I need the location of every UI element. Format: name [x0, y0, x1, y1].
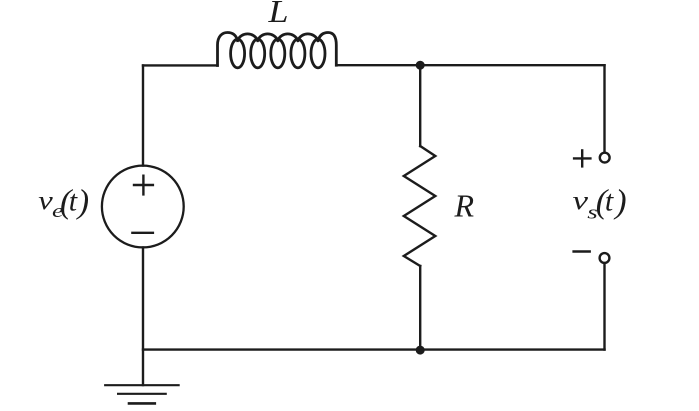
svg-text:): ): [76, 184, 89, 221]
wire middle vertical upper: [419, 65, 421, 146]
minus sign at output: [574, 250, 590, 252]
wire bottom horizontal: [143, 348, 605, 350]
label v_s(t): [573, 184, 627, 224]
wire top-left horizontal: [143, 64, 218, 66]
wire top-right horizontal: [336, 64, 604, 66]
terminal circle plus: [600, 153, 610, 163]
svg-text:t: t: [605, 185, 614, 218]
plus sign at output: [574, 150, 590, 166]
node junction dot top: [416, 61, 425, 70]
inductor L: [218, 33, 337, 68]
svg-text:L: L: [267, 0, 288, 29]
plus sign inside source: [134, 176, 153, 195]
voltage source circle: [102, 166, 184, 248]
label v_e(t): [38, 184, 89, 223]
svg-text:t: t: [69, 185, 78, 218]
ground: [105, 385, 178, 403]
wire left vertical upper: [142, 65, 144, 165]
wire right vertical upper: [603, 65, 605, 152]
node junction dot bottom: [416, 346, 425, 355]
wire middle vertical lower: [419, 266, 421, 350]
svg-text:R: R: [454, 187, 475, 223]
wire left vertical lower: [142, 247, 144, 385]
svg-text:): ): [613, 184, 626, 221]
minus sign inside source: [132, 232, 153, 234]
svg-text:v: v: [573, 186, 589, 215]
wire right vertical lower: [603, 263, 605, 350]
terminal circle minus: [600, 253, 610, 263]
resistor R zigzag: [404, 146, 436, 266]
